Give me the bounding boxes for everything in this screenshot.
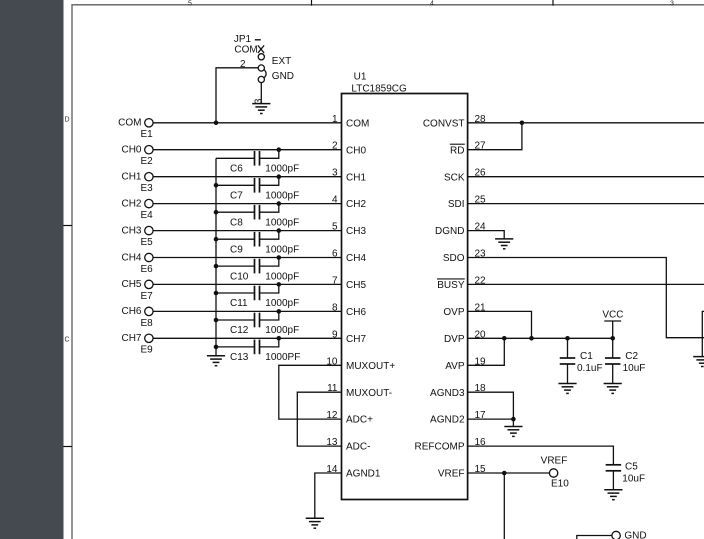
svg-text:E4: E4 <box>141 210 154 221</box>
ground at AGND1 <box>306 518 324 528</box>
svg-text:C7: C7 <box>230 191 243 202</box>
svg-text:CH0: CH0 <box>346 145 366 156</box>
wire MUXOUT+ (pin 10) to ADC+ (pin 12) <box>279 365 342 419</box>
svg-text:CH7: CH7 <box>121 333 141 344</box>
capacitor C10 1000pF <box>216 258 299 283</box>
svg-text:REFCOMP: REFCOMP <box>415 442 465 453</box>
capacitor C9 1000pF <box>216 231 299 256</box>
svg-text:E9: E9 <box>141 345 154 356</box>
wire CH1 to U1 <box>153 176 341 178</box>
connector E5 (CH3 input) <box>121 225 153 248</box>
capacitor C12 1000pF <box>216 311 299 336</box>
JP1 pin number 1 (rotated) <box>255 39 261 41</box>
connector E6 (CH4 input) <box>121 252 153 275</box>
capacitor C5 10uF <box>606 462 645 490</box>
svg-text:1000PF: 1000PF <box>265 352 300 363</box>
junction CH2 / C8 <box>277 201 282 206</box>
svg-text:VREF: VREF <box>541 456 568 467</box>
svg-text:LTC1859CG: LTC1859CG <box>351 83 407 94</box>
ground at capacitor bus <box>207 356 225 366</box>
junction CH0 / C6 <box>277 147 282 152</box>
svg-text:C6: C6 <box>230 164 243 175</box>
svg-text:E8: E8 <box>141 318 154 329</box>
junction VCC net <box>610 336 615 341</box>
svg-text:AGND2: AGND2 <box>430 415 465 426</box>
wire CH3 to U1 <box>153 230 341 232</box>
wire AGND2 (pin 17) <box>468 418 514 420</box>
svg-text:SCK: SCK <box>444 172 465 183</box>
svg-text:AVP: AVP <box>445 361 465 372</box>
svg-text:3: 3 <box>332 168 338 179</box>
svg-text:VREF: VREF <box>438 469 465 480</box>
svg-text:5: 5 <box>332 222 338 233</box>
wire REFCOMP (pin 16) to C5 <box>468 446 614 465</box>
ground at C2 <box>604 384 622 394</box>
junction CH7 / C13 <box>277 336 282 341</box>
wire CH6 to U1 <box>153 310 341 312</box>
svg-text:C12: C12 <box>230 325 249 336</box>
wire CH2 to U1 <box>153 203 341 205</box>
svg-text:1000pF: 1000pF <box>265 164 299 175</box>
svg-text:10uF: 10uF <box>623 363 646 374</box>
svg-text:E7: E7 <box>141 291 154 302</box>
svg-text:AGND3: AGND3 <box>430 388 465 399</box>
svg-text:C: C <box>64 337 69 344</box>
junction VCC net <box>529 336 534 341</box>
junction ground bus / C12 <box>214 318 219 323</box>
svg-text:CH1: CH1 <box>346 172 366 183</box>
svg-text:CH5: CH5 <box>346 280 366 291</box>
junction AGND2/AGND3 <box>511 417 516 422</box>
wire ground bus <box>215 158 217 355</box>
capacitor C7 1000pF <box>216 177 299 202</box>
svg-text:CH0: CH0 <box>121 145 141 156</box>
wire AGND net to ground <box>512 419 514 426</box>
ground at AGND2/3 <box>504 427 522 437</box>
junction CONVST / RD <box>520 121 525 126</box>
junction CH1 / C7 <box>277 174 282 179</box>
svg-text:EXT: EXT <box>272 56 291 67</box>
wire VREF (pin 15) <box>468 472 550 474</box>
svg-text:CH2: CH2 <box>346 199 366 210</box>
svg-text:C8: C8 <box>230 217 243 228</box>
svg-text:1000pF: 1000pF <box>265 244 299 255</box>
capacitor C11 1000pF <box>216 284 299 309</box>
junction VCC net <box>502 336 507 341</box>
svg-text:GND: GND <box>624 531 646 539</box>
svg-text:E1: E1 <box>141 129 154 140</box>
junction ground bus / C9 <box>214 237 219 242</box>
junction ground bus / C10 <box>214 264 219 269</box>
svg-text:C11: C11 <box>230 298 248 309</box>
wire CH0 to U1 <box>153 149 341 151</box>
wire AGND1 (pin 14) to ground <box>315 473 342 518</box>
svg-text:2: 2 <box>332 141 338 152</box>
wire MUXOUT- (pin 11) to ADC- (pin 13) <box>297 392 341 446</box>
wire CH7 to U1 <box>153 337 341 339</box>
svg-text:8: 8 <box>332 302 338 313</box>
svg-text:10uF: 10uF <box>622 474 645 485</box>
svg-text:9: 9 <box>332 329 338 340</box>
svg-text:CH6: CH6 <box>121 306 141 317</box>
svg-text:1000pF: 1000pF <box>265 325 299 336</box>
svg-text:DGND: DGND <box>435 226 464 237</box>
wire COM to U1 <box>153 122 341 124</box>
svg-text:CH5: CH5 <box>121 279 141 290</box>
wire SDO (pin 23) <box>468 258 704 338</box>
wire VREF down (off sheet) <box>503 473 505 539</box>
ground at right edge <box>693 357 704 367</box>
svg-text:SDI: SDI <box>448 199 465 210</box>
wire JP1 pin3 to ground <box>260 83 262 104</box>
junction ground bus / C13 <box>214 345 219 350</box>
svg-text:0.1uF: 0.1uF <box>577 363 603 374</box>
svg-text:1000pF: 1000pF <box>265 217 299 228</box>
connector E9 (CH7 input) <box>121 333 153 356</box>
capacitor C6 1000pF <box>216 150 299 175</box>
junction ground bus / C11 <box>214 291 219 296</box>
svg-text:C10: C10 <box>230 271 249 282</box>
junction ground bus / C7 <box>214 183 219 188</box>
svg-text:CH3: CH3 <box>346 226 366 237</box>
capacitor C1 0.1uF <box>560 338 603 383</box>
ground at JP1 <box>252 104 270 114</box>
wire CH5 to U1 <box>153 283 341 285</box>
junction CH4 / C10 <box>277 255 282 260</box>
connector E7 (CH5 input) <box>121 279 153 302</box>
svg-text:1000pF: 1000pF <box>265 298 299 309</box>
svg-text:1000pF: 1000pF <box>265 191 299 202</box>
svg-text:CH4: CH4 <box>121 252 141 263</box>
junction ground bus / C8 <box>214 210 219 215</box>
wire AGND3 (pin 18) <box>468 392 514 419</box>
wire RD (pin 27) to CONVST <box>468 123 522 150</box>
svg-text:CH4: CH4 <box>346 253 366 264</box>
connector GND terminal <box>612 531 647 539</box>
svg-text:COM: COM <box>346 118 369 129</box>
capacitor C13 1000PF <box>216 338 300 363</box>
ground at C1 <box>558 384 576 394</box>
svg-text:RD: RD <box>450 145 464 156</box>
svg-text:C2: C2 <box>625 351 638 362</box>
capacitor C2 10uF <box>605 338 645 383</box>
junction on COM net <box>214 121 219 126</box>
svg-text:CH1: CH1 <box>121 172 141 183</box>
svg-text:5: 5 <box>188 1 192 8</box>
jumper JP1 <box>234 34 294 82</box>
svg-text:7: 7 <box>332 275 338 286</box>
svg-text:DVP: DVP <box>444 334 465 345</box>
connector E4 (CH2 input) <box>121 198 153 221</box>
svg-text:4: 4 <box>332 195 338 206</box>
junction CH6 / C12 <box>277 309 282 314</box>
svg-text:CH2: CH2 <box>121 198 141 209</box>
svg-text:GND: GND <box>272 71 294 82</box>
capacitor C8 1000pF <box>216 204 299 229</box>
svg-text:E3: E3 <box>141 183 154 194</box>
svg-text:COM: COM <box>118 118 141 129</box>
connector E1 (COM input) <box>118 118 153 141</box>
svg-text:COM: COM <box>234 44 257 55</box>
svg-text:1: 1 <box>332 114 338 125</box>
svg-text:E5: E5 <box>141 237 154 248</box>
svg-text:CH7: CH7 <box>346 334 366 345</box>
wire BUSY (pin 22) <box>468 283 704 285</box>
junction CH5 / C11 <box>277 282 282 287</box>
svg-text:4: 4 <box>430 1 434 8</box>
ground at DGND <box>495 239 513 249</box>
connector E2 (CH0 input) <box>121 145 153 168</box>
wire SDI (pin 25) <box>468 203 704 205</box>
wire DVP (pin 20) / VCC net <box>468 337 613 339</box>
ground at C5 <box>604 490 622 500</box>
svg-text:CH3: CH3 <box>121 225 141 236</box>
svg-text:E2: E2 <box>141 156 154 167</box>
wire CH4 to U1 <box>153 257 341 259</box>
IC U1 LTC1859CG <box>342 71 468 499</box>
svg-text:E10: E10 <box>551 479 569 490</box>
power symbol VCC <box>602 310 623 339</box>
svg-text:D: D <box>64 116 69 123</box>
connector E8 (CH6 input) <box>121 306 153 329</box>
wire SCK (pin 26) <box>468 176 704 178</box>
svg-text:U1: U1 <box>354 71 367 82</box>
svg-text:C13: C13 <box>230 352 249 363</box>
svg-text:6: 6 <box>332 249 338 260</box>
wire DGND (pin 24) <box>468 231 505 239</box>
svg-text:MUXOUT-: MUXOUT- <box>346 388 392 399</box>
svg-text:MUXOUT+: MUXOUT+ <box>346 361 395 372</box>
wire CONVST (pin 28) <box>468 122 704 124</box>
svg-text:AGND1: AGND1 <box>346 469 381 480</box>
svg-text:CH6: CH6 <box>346 307 366 318</box>
svg-text:CONVST: CONVST <box>423 118 465 129</box>
svg-text:C5: C5 <box>625 462 638 473</box>
wire off-sheet net to ground (right edge) <box>702 311 704 356</box>
wire AVP (pin 19) to DVP net <box>468 338 505 365</box>
junction VREF <box>502 471 507 476</box>
junction CH3 / C9 <box>277 228 282 233</box>
connector E3 (CH1 input) <box>121 172 153 195</box>
svg-text:BUSY: BUSY <box>437 280 465 291</box>
wire OVP (pin 21) to DVP net <box>468 311 532 338</box>
connector E10 (VREF) <box>541 456 570 490</box>
junction VCC net <box>565 336 570 341</box>
svg-text:VCC: VCC <box>602 310 623 321</box>
svg-text:1000pF: 1000pF <box>265 271 299 282</box>
svg-text:ADC+: ADC+ <box>346 415 373 426</box>
svg-text:E6: E6 <box>141 264 154 275</box>
svg-text:C1: C1 <box>580 351 593 362</box>
svg-text:C9: C9 <box>230 244 243 255</box>
svg-text:SDO: SDO <box>443 253 465 264</box>
svg-text:OVP: OVP <box>443 307 464 318</box>
svg-text:ADC-: ADC- <box>346 442 370 453</box>
wire JP1 pin2 to COM net <box>216 68 258 123</box>
wire GND terminal (off sheet) <box>577 536 612 539</box>
svg-text:3: 3 <box>670 1 674 8</box>
